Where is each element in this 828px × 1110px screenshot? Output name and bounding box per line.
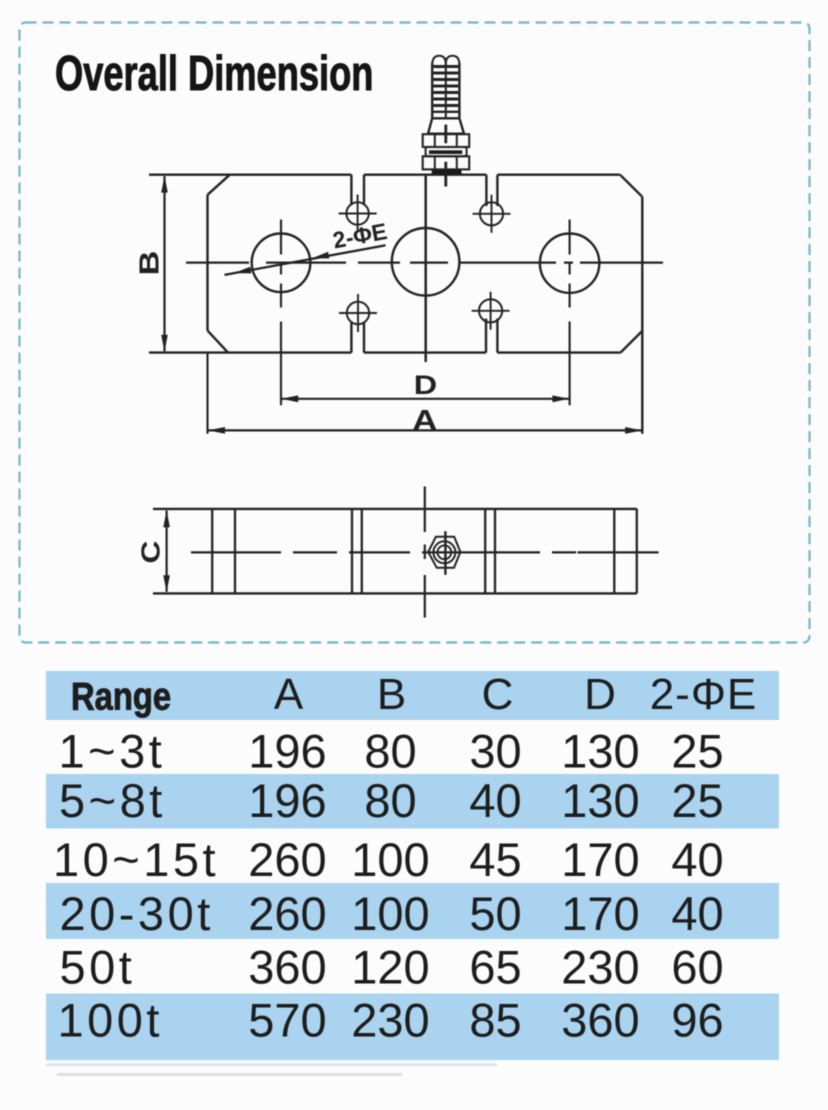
svg-text:170: 170 [561, 833, 639, 886]
side horizontal centerline [191, 551, 659, 553]
slot bottom-right [486, 319, 497, 353]
central vertical line [424, 175, 427, 362]
svg-text:196: 196 [248, 774, 326, 827]
svg-text:230: 230 [351, 994, 429, 1047]
small bolt hole top-right [480, 202, 503, 225]
svg-text:570: 570 [248, 994, 326, 1047]
thread bars [433, 67, 458, 106]
2-PhiE leader line [225, 245, 386, 275]
small bolt hole top-left [346, 202, 368, 224]
svg-text:100: 100 [351, 833, 429, 886]
D arrow right [552, 395, 569, 402]
svg-text:100: 100 [351, 887, 429, 940]
chamfer top-right [620, 175, 642, 197]
svg-text:25: 25 [671, 774, 723, 827]
svg-text:D: D [414, 370, 437, 400]
svg-text:230: 230 [561, 940, 639, 993]
left edge [206, 195, 208, 331]
left circle vertical centerline / D extension [280, 220, 282, 406]
nut inner circle [438, 545, 452, 559]
svg-text:B: B [377, 670, 406, 719]
svg-text:40: 40 [671, 833, 723, 886]
dome inner arc [434, 66, 445, 68]
chamfer bottom-left [208, 331, 229, 353]
A arrow left [208, 427, 225, 434]
svg-text:D: D [584, 670, 616, 719]
svg-text:2-ΦE: 2-ΦE [650, 670, 758, 719]
chamfer top-left [208, 175, 230, 195]
svg-text:A: A [412, 404, 437, 437]
svg-text:50t: 50t [60, 940, 136, 993]
hex nut 1 [423, 134, 470, 147]
D dimension line [281, 398, 570, 400]
svg-text:30: 30 [469, 724, 521, 777]
svg-text:B: B [134, 251, 165, 276]
crosshair bottom-left bolt [339, 294, 377, 332]
side vertical centerline [424, 487, 426, 618]
side top edge [153, 508, 637, 510]
dark base bar [432, 170, 462, 174]
right circle vertical centerline / D extension [569, 220, 571, 406]
B arrow up [161, 176, 168, 193]
svg-text:260: 260 [248, 833, 326, 886]
svg-text:A: A [274, 670, 304, 719]
title [55, 46, 373, 102]
slot bottom-left [351, 322, 364, 353]
D arrow left [281, 395, 298, 402]
right edge extended down to A dimension [641, 197, 643, 434]
side bottom edge [153, 592, 637, 594]
svg-text:40: 40 [469, 774, 521, 827]
svg-text:96: 96 [671, 994, 723, 1047]
slot top-right [486, 175, 497, 206]
svg-text:360: 360 [561, 994, 639, 1047]
rod center cleft [445, 58, 447, 118]
svg-text:50: 50 [469, 887, 521, 940]
crosshair top-right bolt [473, 195, 511, 233]
svg-text:80: 80 [364, 774, 416, 827]
stud centerline [444, 125, 447, 187]
A dimension line [208, 429, 642, 431]
nut 2 facets [435, 156, 457, 169]
washer collar [426, 147, 467, 156]
svg-text:20-30t: 20-30t [60, 887, 214, 940]
svg-text:2-ΦE: 2-ΦE [331, 218, 389, 254]
center hole circle [392, 228, 460, 296]
C arrow down [163, 575, 170, 592]
svg-text:85: 85 [469, 994, 521, 1047]
svg-text:C: C [137, 540, 166, 563]
hex nut side view [428, 537, 460, 568]
right hole circle [540, 234, 599, 293]
small bolt hole bottom-right [479, 299, 502, 322]
B dimension line [163, 176, 165, 351]
threaded rod sides [432, 63, 459, 118]
svg-text:5~8t: 5~8t [59, 774, 166, 827]
nut vertical centerline [444, 531, 446, 575]
A left extension [206, 353, 208, 434]
svg-text:45: 45 [469, 833, 521, 886]
nut 1 facets [435, 134, 457, 147]
C dimension line [166, 511, 168, 592]
leader arrow 1 [234, 267, 251, 274]
svg-text:65: 65 [469, 940, 521, 993]
svg-text:196: 196 [248, 724, 326, 777]
slot top-left [351, 175, 364, 206]
svg-text:260: 260 [248, 887, 326, 940]
svg-text:80: 80 [364, 724, 416, 777]
svg-text:40: 40 [671, 887, 723, 940]
svg-text:170: 170 [561, 887, 639, 940]
side verticals [212, 509, 637, 594]
leader arrow 2 [312, 252, 329, 259]
cone taper [428, 118, 464, 133]
crosshair bottom-right bolt [472, 292, 510, 330]
svg-text:60: 60 [671, 940, 723, 993]
body top edge + B extension [149, 173, 620, 175]
C arrow up [163, 510, 170, 527]
thread full lines [432, 112, 459, 119]
B arrow down [161, 335, 168, 352]
svg-text:25: 25 [671, 724, 723, 777]
rod dome top [432, 56, 459, 64]
svg-text:100t: 100t [58, 994, 163, 1047]
A arrow right [625, 427, 642, 434]
svg-text:Range: Range [71, 674, 171, 718]
crosshair top-left bolt [339, 195, 377, 233]
svg-text:120: 120 [351, 940, 429, 993]
nut outer circle [433, 541, 455, 563]
svg-text:130: 130 [561, 724, 639, 777]
hex nut 2 [423, 156, 470, 169]
svg-text:10~15t: 10~15t [53, 833, 219, 886]
svg-text:C: C [482, 670, 514, 719]
svg-text:1~3t: 1~3t [59, 724, 166, 777]
horizontal centerline [186, 261, 663, 263]
svg-text:360: 360 [248, 940, 326, 993]
left hole circle [252, 233, 311, 292]
small bolt hole bottom-left [347, 302, 369, 324]
body bottom edge + B extension [149, 351, 621, 353]
chamfer bottom-right [621, 331, 643, 353]
svg-text:130: 130 [561, 774, 639, 827]
washer dark band [429, 150, 462, 154]
